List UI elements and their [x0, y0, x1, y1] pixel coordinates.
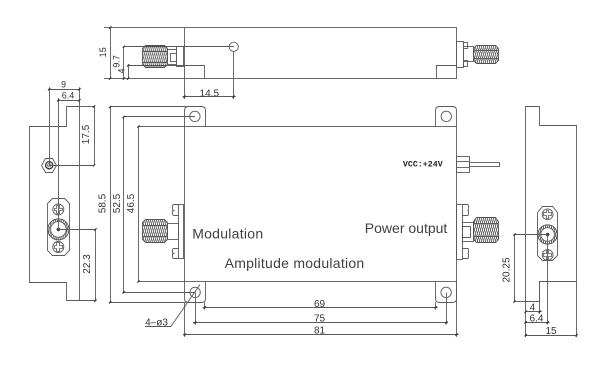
svg-text:75: 75: [314, 314, 326, 325]
svg-text:VCC:+24V: VCC:+24V: [403, 161, 443, 170]
svg-text:52.5: 52.5: [112, 193, 123, 213]
svg-text:20.25: 20.25: [502, 257, 513, 282]
svg-text:4: 4: [117, 68, 127, 73]
svg-text:Amplitude modulation: Amplitude modulation: [225, 255, 365, 271]
svg-text:15: 15: [545, 326, 557, 337]
svg-text:Modulation: Modulation: [192, 226, 263, 242]
svg-text:9.7: 9.7: [111, 55, 121, 68]
svg-text:46.5: 46.5: [126, 193, 137, 213]
svg-text:Power output: Power output: [365, 220, 448, 236]
svg-text:15: 15: [98, 47, 108, 57]
svg-text:6.4: 6.4: [530, 314, 544, 325]
svg-text:81: 81: [314, 326, 326, 337]
svg-text:4: 4: [530, 303, 536, 314]
svg-text:22.3: 22.3: [82, 254, 93, 274]
svg-text:58.5: 58.5: [97, 193, 108, 213]
svg-text:6.4: 6.4: [62, 91, 75, 101]
svg-text:69: 69: [314, 299, 326, 310]
svg-text:17.5: 17.5: [81, 124, 92, 144]
svg-text:9: 9: [61, 80, 66, 90]
svg-text:14.5: 14.5: [200, 88, 220, 99]
svg-text:4–ø3: 4–ø3: [145, 317, 168, 328]
